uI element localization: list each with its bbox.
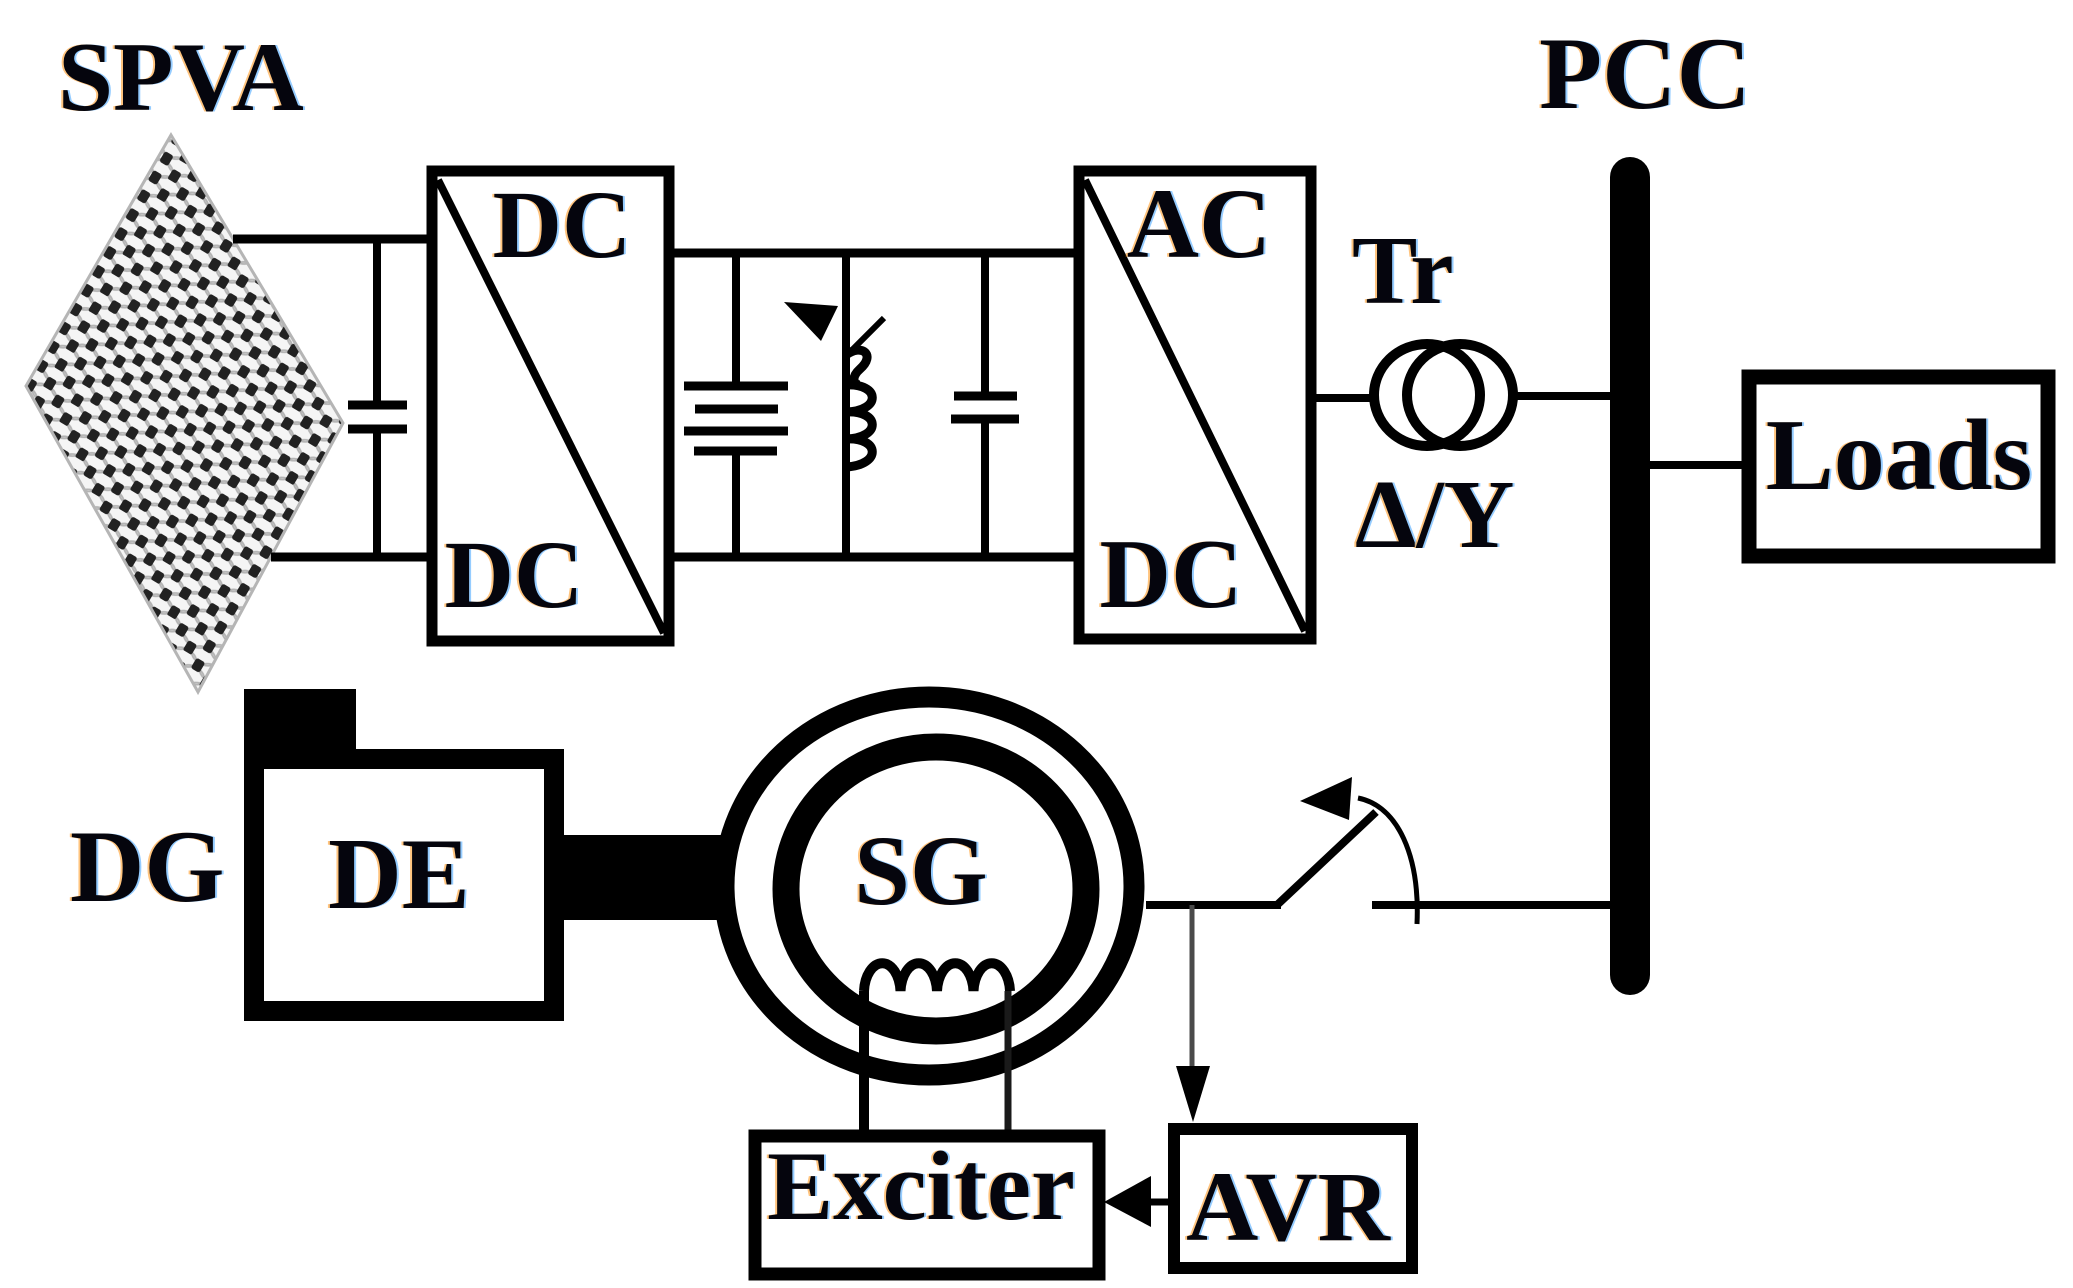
svg-text:DG: DG bbox=[70, 810, 225, 924]
capacitor C2 plates bbox=[951, 396, 1019, 419]
wire DC-link top bbox=[669, 249, 1079, 258]
wire switch to PCC bus bbox=[1372, 901, 1616, 909]
svg-text:Δ/Y: Δ/Y bbox=[1355, 461, 1514, 569]
capacitor C1 plates bbox=[684, 386, 788, 451]
wire SG output to switch bbox=[1146, 901, 1281, 909]
label DG bbox=[68, 810, 227, 924]
inductor L1 variable arrow tail bbox=[851, 318, 884, 351]
synchronous generator SG inner circle bbox=[786, 747, 1086, 1031]
label AC (top of inverter) bbox=[1125, 168, 1273, 279]
node sense tap junction bbox=[1190, 905, 1195, 1070]
AC-DC inverter box bbox=[1079, 171, 1311, 639]
DC-DC converter diagonal bbox=[438, 180, 664, 633]
inductor L1 coil bbox=[846, 350, 872, 467]
capacitor C2 top lead bbox=[981, 253, 989, 393]
svg-text:Loads: Loads bbox=[1766, 399, 2032, 512]
SG field winding coil bbox=[864, 963, 1010, 991]
switch travel arc bbox=[1358, 798, 1417, 924]
Loads box bbox=[1749, 377, 2048, 556]
arrow AVR to Exciter head bbox=[1104, 1176, 1151, 1227]
wire PV bottom to DC-DC converter bbox=[271, 553, 436, 562]
switch blade bbox=[1277, 812, 1376, 905]
wire DC-link bottom bbox=[669, 553, 1079, 562]
svg-text:DC: DC bbox=[493, 171, 632, 278]
capacitor C2 bottom lead bbox=[981, 423, 989, 557]
synchronous generator SG outer circle bbox=[724, 697, 1134, 1075]
wire inverter to transformer bbox=[1311, 394, 1378, 402]
svg-text:DC: DC bbox=[445, 521, 584, 628]
AVR box bbox=[1174, 1129, 1412, 1268]
label Delta/Y bbox=[1353, 461, 1516, 569]
label DE bbox=[326, 818, 472, 931]
capacitor C1 bottom lead bbox=[732, 455, 740, 557]
label SPVA bbox=[56, 23, 306, 132]
capacitor Cin plates bbox=[348, 405, 407, 429]
arrow AVR to Exciter shaft bbox=[1144, 1199, 1168, 1206]
svg-text:PCC: PCC bbox=[1539, 17, 1751, 131]
wire SG field right lead to Exciter bbox=[1005, 991, 1012, 1152]
svg-text:AVR: AVR bbox=[1186, 1151, 1392, 1262]
svg-text:DE: DE bbox=[328, 818, 470, 931]
svg-text:DC: DC bbox=[1100, 520, 1243, 629]
transformer Tr winding 1 bbox=[1374, 344, 1480, 446]
label Tr bbox=[1350, 217, 1456, 325]
shaft DE to SG bbox=[545, 835, 782, 920]
wire PCC bus to Loads bbox=[1650, 461, 1750, 469]
capacitor Cin bottom lead bbox=[373, 433, 381, 557]
Exciter box bbox=[755, 1136, 1099, 1274]
label SG bbox=[852, 815, 989, 926]
label Loads bbox=[1764, 399, 2034, 512]
svg-text:Exciter: Exciter bbox=[767, 1132, 1075, 1241]
arrow sense line into AVR head bbox=[1176, 1066, 1210, 1122]
svg-text:SPVA: SPVA bbox=[58, 23, 304, 132]
label DC (bottom of inverter) bbox=[1098, 520, 1245, 629]
wire transformer to PCC bus bbox=[1512, 392, 1620, 400]
AC-DC inverter diagonal bbox=[1085, 180, 1305, 631]
svg-text:Tr: Tr bbox=[1352, 217, 1454, 325]
diesel engine DE exhaust tab bbox=[244, 689, 356, 764]
PV array SPVA bbox=[26, 135, 343, 692]
label PCC bbox=[1537, 17, 1753, 131]
label DC (bottom of DC-DC) bbox=[443, 521, 586, 628]
wire SG field left lead to Exciter bbox=[859, 991, 869, 1136]
PCC bus bar bbox=[1610, 177, 1650, 975]
transformer Tr winding 2 bbox=[1407, 344, 1513, 446]
svg-text:SG: SG bbox=[854, 815, 987, 926]
label Exciter bbox=[765, 1132, 1077, 1241]
inductor L1 variable arrow head bbox=[784, 302, 838, 341]
diesel engine DE box bbox=[254, 759, 554, 1011]
label DC (top of DC-DC) bbox=[491, 171, 634, 278]
wire PV top to DC-DC converter bbox=[233, 235, 436, 244]
switch blade arrow head bbox=[1300, 777, 1352, 820]
capacitor Cin top lead bbox=[373, 239, 381, 402]
capacitor C1 top lead bbox=[732, 253, 740, 384]
label AVR bbox=[1184, 1151, 1394, 1262]
inductor L1 top lead bbox=[842, 253, 850, 557]
svg-text:AC: AC bbox=[1127, 168, 1271, 279]
DC-DC converter box bbox=[432, 171, 669, 641]
